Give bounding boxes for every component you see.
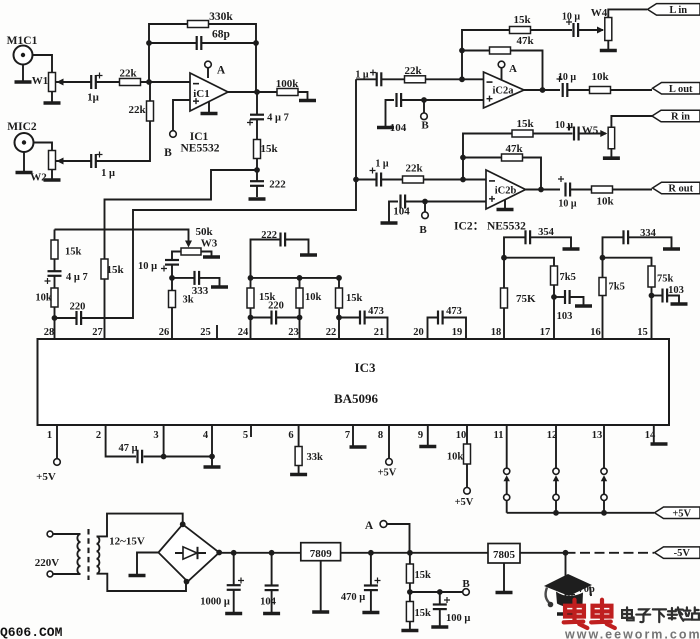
svg-text:100 μ: 100 μ xyxy=(446,613,470,624)
svg-text:473: 473 xyxy=(446,306,462,317)
svg-text:33k: 33k xyxy=(307,452,324,463)
svg-text:4: 4 xyxy=(203,430,209,441)
svg-text:330k: 330k xyxy=(209,11,233,23)
svg-text:1000 μ: 1000 μ xyxy=(200,597,230,608)
svg-text:19: 19 xyxy=(452,327,463,338)
svg-text:333: 333 xyxy=(192,285,209,297)
svg-text:15k: 15k xyxy=(516,118,534,130)
svg-text:10 μ: 10 μ xyxy=(138,261,157,272)
svg-text:7k5: 7k5 xyxy=(560,272,576,283)
svg-text:MIC2: MIC2 xyxy=(7,121,37,133)
svg-text:A: A xyxy=(365,520,374,532)
svg-text:25: 25 xyxy=(200,327,211,338)
svg-text:12~15V: 12~15V xyxy=(109,536,145,548)
svg-text:iC1: iC1 xyxy=(193,88,210,100)
svg-text:11: 11 xyxy=(494,430,504,441)
svg-text:+5V: +5V xyxy=(36,471,56,483)
svg-text:BA5096: BA5096 xyxy=(334,391,379,406)
svg-text:47k: 47k xyxy=(516,35,534,47)
svg-text:8: 8 xyxy=(378,430,383,441)
svg-text:17: 17 xyxy=(540,327,551,338)
svg-text:IC1: IC1 xyxy=(190,131,209,143)
svg-text:W3: W3 xyxy=(201,238,218,250)
svg-text:68p: 68p xyxy=(212,29,230,41)
svg-text:24: 24 xyxy=(238,327,249,338)
svg-text:10: 10 xyxy=(456,430,467,441)
svg-text:15k: 15k xyxy=(106,264,124,276)
svg-text:47 μ: 47 μ xyxy=(118,443,137,454)
svg-text:B: B xyxy=(421,120,429,132)
svg-text:470 μ: 470 μ xyxy=(341,592,365,603)
svg-text:R out: R out xyxy=(668,184,693,195)
svg-text:103: 103 xyxy=(557,311,573,322)
svg-text:10 μ: 10 μ xyxy=(555,120,574,131)
svg-text:15k: 15k xyxy=(346,293,363,304)
svg-text:W4: W4 xyxy=(591,7,608,19)
svg-text:23: 23 xyxy=(288,327,299,338)
svg-text:1: 1 xyxy=(47,430,52,441)
svg-text:B: B xyxy=(164,147,172,159)
svg-text:W5: W5 xyxy=(582,125,599,137)
svg-text:9: 9 xyxy=(418,430,423,441)
svg-text:+5V: +5V xyxy=(672,508,691,519)
svg-text:222: 222 xyxy=(269,179,286,191)
svg-text:15k: 15k xyxy=(415,570,432,581)
svg-text:50k: 50k xyxy=(195,226,213,238)
svg-text:103: 103 xyxy=(668,285,684,296)
svg-text:10k: 10k xyxy=(596,196,614,208)
svg-text:22k: 22k xyxy=(405,163,423,175)
svg-text:L in: L in xyxy=(669,5,687,16)
svg-text:Q606.COM: Q606.COM xyxy=(0,625,63,639)
svg-text:7809: 7809 xyxy=(310,548,333,560)
svg-text:22k: 22k xyxy=(128,104,146,116)
svg-text:47k: 47k xyxy=(505,143,523,155)
svg-text:222: 222 xyxy=(261,230,277,241)
svg-text:A: A xyxy=(509,63,517,75)
svg-text:2: 2 xyxy=(96,430,101,441)
svg-text:L out: L out xyxy=(669,84,693,95)
svg-text:W2: W2 xyxy=(30,172,47,184)
svg-text:B: B xyxy=(419,224,427,236)
svg-text:13: 13 xyxy=(592,430,603,441)
svg-text:IC3: IC3 xyxy=(355,360,376,375)
svg-text:W1: W1 xyxy=(32,75,49,87)
svg-text:7805: 7805 xyxy=(493,549,516,561)
svg-text:10k: 10k xyxy=(305,292,322,303)
svg-text:1 μ: 1 μ xyxy=(375,159,389,170)
svg-text:6: 6 xyxy=(288,430,293,441)
svg-text:iC2a: iC2a xyxy=(493,86,515,97)
svg-text:3: 3 xyxy=(153,430,158,441)
svg-text:10k: 10k xyxy=(447,452,464,463)
svg-text:28: 28 xyxy=(44,327,55,338)
svg-text:27: 27 xyxy=(92,327,103,338)
svg-text:B: B xyxy=(462,578,470,590)
svg-text:20: 20 xyxy=(413,327,424,338)
svg-text:A: A xyxy=(217,65,226,77)
svg-text:+5V: +5V xyxy=(455,497,474,508)
svg-text:10 μ: 10 μ xyxy=(558,199,577,210)
svg-text:15k: 15k xyxy=(415,608,432,619)
svg-text:220: 220 xyxy=(70,302,86,313)
svg-text:iC2b: iC2b xyxy=(495,186,517,197)
svg-text:10k: 10k xyxy=(591,71,609,83)
svg-text:473: 473 xyxy=(368,306,384,317)
svg-text:www.eeworm.com: www.eeworm.com xyxy=(564,628,700,639)
svg-text:21: 21 xyxy=(374,327,385,338)
svg-text:4 μ 7: 4 μ 7 xyxy=(267,113,289,124)
svg-text:22: 22 xyxy=(326,327,337,338)
svg-text:18: 18 xyxy=(491,327,502,338)
svg-text:IC2： NE5532: IC2： NE5532 xyxy=(454,221,526,233)
svg-text:4 μ 7: 4 μ 7 xyxy=(66,272,88,283)
svg-text:10 μ: 10 μ xyxy=(558,72,577,83)
svg-text:22k: 22k xyxy=(119,68,137,80)
svg-text:-5V: -5V xyxy=(674,548,691,559)
svg-text:15k: 15k xyxy=(260,143,278,155)
svg-text:16: 16 xyxy=(590,327,601,338)
svg-text:1μ: 1μ xyxy=(87,92,100,104)
svg-text:10 μ: 10 μ xyxy=(562,12,581,23)
svg-text:1 μ: 1 μ xyxy=(355,70,369,81)
svg-text:1 μ: 1 μ xyxy=(101,168,115,179)
svg-text:75k: 75k xyxy=(657,274,674,285)
svg-text:R in: R in xyxy=(671,112,690,123)
svg-text:220V: 220V xyxy=(35,557,60,569)
svg-text:NE5532: NE5532 xyxy=(181,143,220,155)
svg-text:5: 5 xyxy=(243,430,248,441)
svg-text:75K: 75K xyxy=(516,293,536,305)
svg-text:26: 26 xyxy=(159,327,170,338)
svg-text:+5V: +5V xyxy=(378,468,397,479)
svg-text:100k: 100k xyxy=(276,78,300,90)
svg-text:15k: 15k xyxy=(65,247,82,258)
svg-text:7k5: 7k5 xyxy=(609,282,625,293)
svg-text:22k: 22k xyxy=(404,65,422,77)
svg-text:3k: 3k xyxy=(183,295,194,306)
svg-text:15: 15 xyxy=(637,327,648,338)
svg-text:104: 104 xyxy=(260,597,277,608)
svg-text:220: 220 xyxy=(268,301,284,312)
svg-text:M1C1: M1C1 xyxy=(7,35,38,47)
svg-text:104: 104 xyxy=(393,206,410,218)
svg-text:10k: 10k xyxy=(35,293,52,304)
svg-text:7: 7 xyxy=(345,430,350,441)
svg-text:15k: 15k xyxy=(513,14,531,26)
